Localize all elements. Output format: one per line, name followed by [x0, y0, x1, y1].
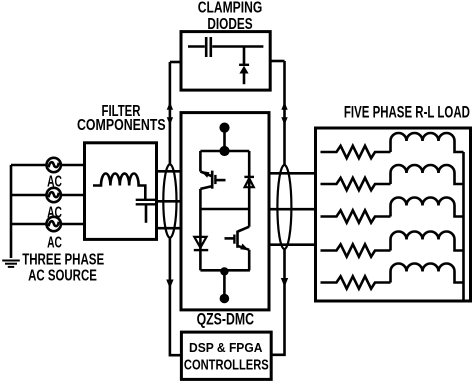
- wire phase B: [11, 194, 85, 197]
- resistor R5: [321, 276, 391, 288]
- AC source 2: [47, 188, 61, 202]
- inductor L3: [391, 198, 464, 217]
- arrow right double up: [281, 102, 287, 110]
- arrow left double up: [167, 102, 173, 110]
- resistor R4: [321, 244, 391, 256]
- wire filter-dmc bus 3: [157, 227, 182, 230]
- diode D2: [194, 237, 208, 270]
- wire filter-dmc bus 2: [157, 200, 182, 203]
- wire dmc-load bus 1: [269, 172, 316, 175]
- arrow left double down: [167, 117, 173, 125]
- clamping diodes box: [181, 32, 270, 91]
- inductor L4: [391, 232, 464, 251]
- five phase load box: [316, 128, 471, 301]
- diode D-clamp: [239, 47, 249, 85]
- wire left bracket leg lower: [170, 238, 182, 356]
- wire dmc-load bus 2: [269, 208, 316, 211]
- wire left bracket leg upper: [169, 62, 172, 165]
- label FILTER COMPONENTS: [77, 103, 166, 134]
- svg-text:AC: AC: [47, 235, 62, 252]
- capacitor C-clamp plates: [206, 37, 211, 57]
- transistor Q2: [225, 227, 250, 251]
- bus ellipse left: [163, 164, 176, 237]
- inductor L1: [391, 133, 464, 152]
- DSP box: [181, 332, 271, 379]
- wire three-phase left rail: [10, 165, 13, 258]
- wire capacitor left lead: [188, 45, 205, 48]
- AC source 3: [47, 217, 61, 231]
- wire clamp left stub: [170, 61, 181, 64]
- resistor R2: [321, 178, 391, 190]
- inductor L5: [391, 264, 464, 283]
- transistor Q1: [200, 171, 225, 189]
- wire dmc left rail mid: [199, 189, 202, 209]
- wire node link top: [223, 128, 226, 151]
- svg-text:DSP & FPGA: DSP & FPGA: [189, 340, 263, 355]
- wire node link bottom: [223, 271, 226, 298]
- wire clamp right stub: [270, 60, 284, 63]
- capacitor C-filter: [136, 200, 157, 223]
- wire filter-dmc bus 1: [157, 170, 182, 173]
- inductor L-filter: [93, 173, 145, 199]
- label DSP & FPGA CONTROLLERS: [184, 340, 269, 374]
- node N2: [220, 294, 230, 304]
- QZS-DMC box: [181, 113, 269, 310]
- label THREE PHASE AC SOURCE: [22, 251, 104, 284]
- node P1: [219, 123, 229, 133]
- wire dmc left rail lower: [199, 209, 202, 237]
- svg-text:AC SOURCE: AC SOURCE: [28, 267, 97, 284]
- ground: [2, 261, 20, 267]
- inductor L2: [391, 165, 464, 184]
- wire capacitor right lead: [212, 45, 263, 48]
- svg-text:QZS-DMC: QZS-DMC: [197, 309, 254, 328]
- AC source 1: [47, 158, 61, 172]
- node N1: [220, 267, 228, 275]
- wire Q2 emitter rail: [248, 250, 251, 270]
- wire phase C: [11, 223, 85, 226]
- node P2: [219, 146, 229, 156]
- bus ellipse right: [277, 165, 291, 249]
- wire right bracket leg upper: [283, 61, 286, 165]
- wire dmc right rail upper: [248, 151, 251, 177]
- wire dmc middle rail: [200, 208, 249, 211]
- wire right bracket leg lower: [271, 249, 284, 355]
- arrow right double down: [281, 117, 287, 125]
- resistor R1: [321, 146, 391, 158]
- wire phase A: [11, 164, 85, 167]
- filter components box: [85, 143, 157, 240]
- wire dmc right rail lower: [248, 209, 251, 227]
- arrow left lower down: [166, 280, 173, 289]
- svg-text:FIVE PHASE R-L LOAD: FIVE PHASE R-L LOAD: [344, 103, 470, 122]
- wire dmc left rail upper: [199, 151, 202, 172]
- svg-text:CLAMPING: CLAMPING: [198, 0, 263, 17]
- wire load neutral bus: [462, 152, 465, 301]
- label CLAMPING DIODES: [198, 0, 263, 33]
- diode D1: [244, 177, 254, 209]
- wire dmc top rail: [200, 150, 249, 153]
- resistor R3: [321, 210, 391, 222]
- svg-text:THREE PHASE: THREE PHASE: [22, 251, 104, 268]
- arrow right lower down: [281, 278, 288, 287]
- wire dmc bottom rail: [200, 269, 250, 272]
- svg-text:CONTROLLERS: CONTROLLERS: [184, 358, 269, 374]
- wire dmc-load bus 3: [269, 243, 316, 246]
- svg-text:COMPONENTS: COMPONENTS: [77, 117, 166, 134]
